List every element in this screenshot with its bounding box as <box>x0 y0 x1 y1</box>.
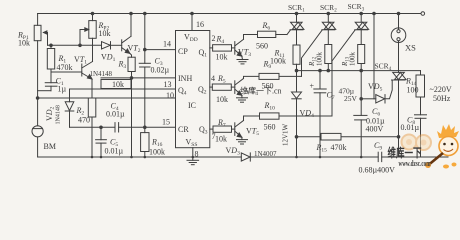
svg-text:50Hz: 50Hz <box>433 94 451 103</box>
resistor R11 <box>293 45 300 71</box>
node RP2 wiper junction <box>79 44 82 47</box>
resistor R7 <box>210 126 235 132</box>
wire main bias line y45 <box>48 44 102 46</box>
capacitor C9 series <box>378 152 448 161</box>
capacitor C8 <box>415 115 427 157</box>
svg-text:10k: 10k <box>112 80 124 89</box>
diode VD3 <box>241 153 378 161</box>
resistor R10 <box>260 113 333 119</box>
svg-text:0.68µ400V: 0.68µ400V <box>359 166 396 175</box>
svg-text:CR: CR <box>178 125 189 134</box>
wire R15 row <box>297 136 322 138</box>
svg-text:10k: 10k <box>215 135 227 144</box>
resistor R3 <box>128 57 135 79</box>
wire VT5 collector <box>244 116 260 121</box>
transistor VT4 <box>235 79 244 96</box>
thyristor SCR1 <box>290 12 304 45</box>
svg-text:1N4007: 1N4007 <box>254 150 277 158</box>
node open terminal top right <box>421 12 425 16</box>
svg-text:400V: 400V <box>366 125 384 134</box>
wire R3 ground drop <box>131 78 133 157</box>
svg-text:560: 560 <box>264 123 276 132</box>
svg-text:470: 470 <box>78 116 90 125</box>
wire CP pin14 <box>145 49 176 51</box>
svg-text:~220V: ~220V <box>430 85 452 94</box>
resistor R4 <box>210 45 235 51</box>
capacitor C7 <box>314 69 326 157</box>
resistor R2 <box>88 98 96 157</box>
resistor R5 <box>210 84 235 90</box>
svg-text:BM: BM <box>44 142 56 151</box>
wire left rail from RP1 bottom <box>37 41 39 126</box>
svg-text:470k: 470k <box>57 63 73 72</box>
diode VD2 <box>65 89 74 127</box>
potentiometer RP1 <box>34 14 47 46</box>
node rail VT2 collector <box>130 12 133 15</box>
transistor VT3 <box>235 39 244 56</box>
resistor R9 <box>259 73 302 79</box>
wire cathode bus y70.6 <box>297 70 421 72</box>
ground VT5 <box>237 137 248 144</box>
resistor R15 <box>321 133 398 140</box>
svg-text:16: 16 <box>196 20 204 29</box>
wire Q4 line y89 <box>70 88 176 90</box>
wire VT4 collector <box>244 76 260 78</box>
resistor 10k box <box>101 80 131 89</box>
svg-text:10k: 10k <box>216 53 228 62</box>
svg-text:www.dzsc.com: www.dzsc.com <box>399 159 431 168</box>
resistor R1 <box>47 45 54 82</box>
diode VD1 <box>102 42 122 49</box>
watermark mascot logo <box>388 124 460 169</box>
svg-text:100k: 100k <box>270 57 286 66</box>
svg-text:10k: 10k <box>99 29 111 38</box>
wire INH pin13 <box>132 77 176 79</box>
node R16 junction <box>144 126 147 129</box>
svg-text:+: + <box>310 82 315 91</box>
wire pin10 line y98 <box>38 97 176 99</box>
zener VD4 <box>292 71 302 157</box>
capacitor C1 <box>38 83 58 91</box>
transistor VT1 <box>82 62 93 99</box>
svg-text:0.01µ: 0.01µ <box>106 110 125 119</box>
node rail dots bottom <box>91 156 363 159</box>
transistor VT5 <box>235 121 244 138</box>
svg-text:12V1W: 12V1W <box>282 123 290 146</box>
socket XS <box>391 12 406 72</box>
svg-text:560: 560 <box>256 42 268 51</box>
svg-text:2: 2 <box>212 34 216 43</box>
capacitor C3 <box>139 50 150 128</box>
svg-text:100: 100 <box>407 86 419 95</box>
resistor R13 <box>358 45 365 72</box>
svg-text:维库一下: 维库一下 <box>388 145 422 160</box>
svg-text:INH: INH <box>178 74 192 83</box>
svg-text:0.01µ: 0.01µ <box>401 123 420 132</box>
svg-text:100k: 100k <box>149 148 165 157</box>
node C5 junction <box>100 126 103 129</box>
capacitor C4 <box>115 123 176 132</box>
svg-text:1µ: 1µ <box>58 85 67 94</box>
svg-text:0.01µ: 0.01µ <box>105 147 124 156</box>
svg-text:470k: 470k <box>331 143 347 152</box>
svg-text:10: 10 <box>166 91 174 100</box>
transistor VT2 <box>122 36 132 57</box>
resistor R6 <box>258 30 291 38</box>
wire RP2 bottom to VT1 collector <box>92 38 94 61</box>
resistor R14 <box>416 71 425 115</box>
svg-text:13: 13 <box>164 80 172 89</box>
potentiometer RP2 <box>80 12 96 45</box>
wire bottom ground rail <box>38 156 242 158</box>
capacitor C6 <box>354 71 367 157</box>
wire pin8 <box>192 148 194 157</box>
wire VT2 collector to rail <box>130 14 132 37</box>
svg-text:10k: 10k <box>216 95 228 104</box>
svg-text:25V: 25V <box>344 94 358 103</box>
wire VT1 base <box>51 71 82 73</box>
ground VT4 <box>237 95 248 102</box>
wire VT3 collector <box>244 35 258 40</box>
svg-text:CP: CP <box>178 47 188 56</box>
capacitor C5 <box>96 127 107 157</box>
node R1 top junction <box>50 44 53 47</box>
svg-text:0.02µ: 0.02µ <box>151 66 170 75</box>
svg-text:XS: XS <box>405 43 416 53</box>
ground pin8 <box>187 157 199 165</box>
svg-text:14: 14 <box>163 40 171 49</box>
svg-text:100k: 100k <box>349 52 357 67</box>
resistor R12 <box>325 45 332 72</box>
ground VT3 <box>237 56 248 64</box>
wire pin16 <box>191 14 193 31</box>
svg-text:100k: 100k <box>316 52 324 67</box>
svg-text:10k: 10k <box>18 39 30 48</box>
microphone BM <box>32 126 43 157</box>
thyristor SCR4 <box>392 72 407 157</box>
wire VD5 feed from rail <box>373 14 375 99</box>
svg-text:8: 8 <box>195 150 199 159</box>
svg-text:4: 4 <box>211 74 215 83</box>
resistor R16 <box>141 127 149 157</box>
svg-text:IC: IC <box>188 101 196 110</box>
wire CR line y127 <box>70 126 116 128</box>
diode VD5 <box>361 80 392 103</box>
wire top supply rail <box>38 13 421 15</box>
IC box <box>176 31 210 148</box>
thyristor SCR2 <box>302 12 336 76</box>
svg-text:15: 15 <box>162 118 170 127</box>
thyristor SCR3 <box>332 12 369 116</box>
svg-text:1N4148: 1N4148 <box>56 105 62 124</box>
svg-text:维库一下.cn: 维库一下.cn <box>240 86 282 96</box>
svg-text:1N4148: 1N4148 <box>90 70 113 78</box>
